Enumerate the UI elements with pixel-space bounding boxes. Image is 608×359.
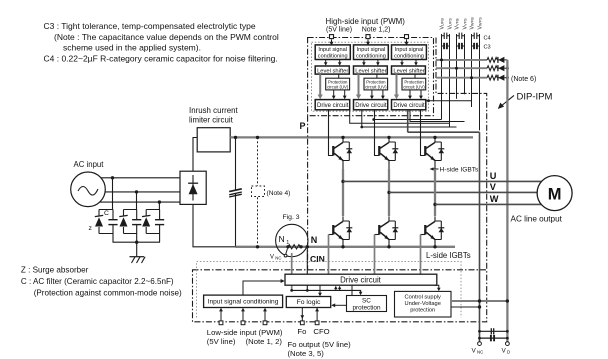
svg-text:Drive circuit: Drive circuit [355, 103, 387, 109]
arrows protection to drive 1 [332, 90, 347, 99]
label low-side input [207, 328, 283, 346]
svg-text:P: P [300, 121, 306, 131]
wire CFO pin [316, 308, 318, 321]
junction row 2 column [455, 67, 458, 70]
wire output V [389, 191, 537, 193]
capacitor C4 (ceramic) at 460 [457, 33, 465, 39]
junction N note4 [256, 245, 259, 248]
svg-text:N: N [311, 235, 318, 245]
junction P rail IGBT 3 [433, 136, 436, 139]
wire bootstrap supply row 1 [436, 59, 487, 61]
label Fo output [288, 340, 352, 358]
svg-text:Drive circuit: Drive circuit [393, 103, 425, 109]
AC source [71, 160, 106, 207]
input signal conditioning box 1 (high side) [315, 45, 350, 60]
input signal conditioning box 3 (high side) [392, 45, 427, 60]
wire conditioning to drive circuit [243, 281, 282, 295]
wire rectifier minus to N rail [193, 204, 236, 246]
arrows into drive circuit bottom [336, 289, 340, 291]
svg-text:circuit (UV): circuit (UV) [327, 84, 349, 89]
svg-text:circuit (UV): circuit (UV) [403, 84, 425, 89]
svg-text:Input signal conditioning: Input signal conditioning [208, 299, 279, 306]
svg-text:V: V [472, 348, 477, 355]
wire phase node W vertical [434, 169, 436, 216]
svg-text:Input signal: Input signal [357, 47, 386, 53]
svg-text:C4: C4 [484, 36, 491, 42]
arrows conditioning to level shifter 3 [400, 60, 418, 66]
svg-text:(Note 4): (Note 4) [267, 190, 291, 197]
label DIP-IPM [498, 92, 553, 110]
svg-text:scheme used in the applied sys: scheme used in the applied system). [63, 43, 201, 53]
H-side IGBT 2 with freewheel diode [375, 110, 399, 169]
bootstrap cap column wires 475 [472, 34, 480, 130]
wire VNC to UV protection [451, 306, 480, 308]
wire shunt sense (gray) down [291, 253, 293, 290]
input signal conditioning box (low side) [204, 295, 283, 307]
svg-text:C3: C3 [484, 45, 491, 51]
low-side inner dotted boundary [197, 262, 462, 318]
wire drive1 to VUFS [350, 110, 450, 123]
arrows protection to drive 3 [408, 90, 423, 99]
drive circuit box 1 (high side) [315, 100, 350, 110]
junction on line 3 [158, 200, 161, 203]
capacitor across VD-VNC (electrolytic, lower) [491, 335, 494, 341]
svg-text:Note 1,2): Note 1,2) [362, 27, 391, 34]
inrush current limiter box [189, 106, 238, 152]
svg-text:Inrush current: Inrush current [189, 106, 238, 115]
surge absorber Z + capacitor C branch 1 [95, 210, 118, 234]
wire drive2 to VVFB [362, 110, 457, 127]
wire phase node U vertical [342, 169, 344, 216]
DIP-IPM package boundary left edge [307, 116, 309, 270]
pin circle high-side input 1 [330, 35, 334, 39]
svg-text:conditioning: conditioning [318, 54, 348, 60]
svg-text:Fo: Fo [297, 327, 306, 336]
svg-text:Z : Surge absorber: Z : Surge absorber [21, 265, 89, 274]
svg-text:L-side IGBTs: L-side IGBTs [426, 251, 471, 260]
pin circle Fo [300, 321, 304, 325]
svg-text:(5V line): (5V line) [326, 27, 352, 34]
arrow into SC protection top [359, 292, 363, 295]
svg-text:AC input: AC input [74, 160, 105, 169]
high-side inner dotted boundary [312, 42, 429, 111]
wire drive3 to VVFS [410, 110, 465, 122]
wire VNC return (gray) [408, 110, 480, 342]
junction phase V [387, 191, 390, 194]
svg-text:Level shifter: Level shifter [393, 69, 424, 75]
junction CIN N rail [306, 245, 309, 248]
wire level shifter to protection 3 [414, 74, 416, 78]
label VD [502, 348, 511, 355]
DIP-IPM package boundary top right [436, 38, 487, 270]
junction VNC crossing [478, 299, 481, 302]
drive circuit box (low side) [285, 274, 437, 285]
svg-text:Under-Voltage: Under-Voltage [405, 301, 441, 307]
junction VD row 2 [506, 67, 509, 70]
wire AC line 3 [100, 201, 180, 203]
svg-text:(Protection against common-mod: (Protection against common-mode noise) [34, 288, 182, 297]
drive circuit box 3 (high side) [392, 100, 426, 110]
junction VD UV [506, 299, 509, 302]
svg-text:Input signal: Input signal [395, 47, 424, 53]
svg-text:Low-side input (PWM): Low-side input (PWM) [207, 328, 283, 337]
L-side IGBT 3 with freewheel diode [421, 216, 445, 246]
junction VD row 3 [506, 76, 509, 79]
pin circle high-side input 2 [366, 35, 370, 39]
svg-text:Level shifter: Level shifter [355, 69, 386, 75]
wire SC to drive [351, 285, 353, 295]
wire drive3 to VWFB [426, 100, 472, 102]
svg-text:D: D [507, 350, 510, 355]
wire drop to filter 3 [158, 202, 160, 209]
wire rectifier plus to inrush [193, 138, 197, 172]
svg-text:C: C [104, 210, 109, 217]
svg-text:V: V [270, 254, 274, 260]
arrows conditioning to level shifter 1 [324, 60, 342, 66]
svg-text:C : AC filter (Ceramic capacit: C : AC filter (Ceramic capacitor 2.2~6.5… [21, 277, 174, 286]
arrows conditioning to level shifter 2 [362, 60, 380, 66]
svg-text:(Note 3, 5): (Note 3, 5) [288, 349, 325, 358]
wire level shifter to protection 2 [376, 74, 378, 78]
junction N rail IGBT 1 [341, 245, 344, 248]
wire VD to UV protection (gray) [451, 300, 507, 302]
junction P C1 [234, 136, 237, 139]
svg-text:CFO: CFO [313, 327, 329, 336]
shunt resistor zigzag [288, 245, 300, 249]
wire VD supply line [506, 60, 508, 342]
svg-text:N: N [279, 234, 285, 244]
ground [130, 257, 146, 263]
wire VNC/VD bottom caps top [480, 330, 508, 332]
wire VNC/VD bottom caps bottom [480, 337, 508, 339]
svg-text:conditioning: conditioning [394, 54, 424, 60]
svg-text:Fig. 3: Fig. 3 [283, 214, 300, 221]
diode (bootstrap BSD) row 3 [497, 75, 507, 81]
H-side IGBT 3 with freewheel diode [421, 110, 445, 169]
wire filter bottom rail [113, 234, 161, 243]
label VNC [472, 348, 484, 355]
bootstrap cap column wires 445 [442, 34, 450, 127]
svg-text:(Note 1, 2): (Note 1, 2) [246, 337, 283, 346]
wire CIN down [306, 247, 308, 291]
level shifter box 3 [392, 66, 426, 75]
VNC sense terminal [270, 249, 288, 261]
svg-text:U: U [490, 171, 497, 181]
svg-text:circuit (UV): circuit (UV) [365, 84, 387, 89]
wire P rail [230, 136, 473, 138]
svg-text:V: V [502, 348, 507, 355]
svg-text:V: V [490, 182, 497, 192]
wire AC line 1 [101, 177, 180, 179]
dashed branch (Note 4) [252, 137, 291, 246]
wire pin 2 to input conditioning [367, 39, 369, 43]
svg-text:Level shifter: Level shifter [317, 69, 348, 75]
svg-text:DIP-IPM: DIP-IPM [517, 92, 553, 103]
junction N rail IGBT 2 [387, 245, 390, 248]
capacitor C1 (smoothing electrolytic) [229, 137, 242, 246]
note text C3/C4 [44, 21, 279, 63]
svg-text:H-side IGBTs: H-side IGBTs [440, 167, 480, 174]
protection circuit (UV) box 1 [326, 78, 350, 90]
wire pin 1 to input conditioning [331, 39, 333, 43]
svg-text:C3 : Tight tolerance, temp-com: C3 : Tight tolerance, temp-compensated e… [44, 21, 256, 31]
capacitor C4 (ceramic) at 445 [442, 33, 450, 39]
H-side IGBT 1 with freewheel diode [329, 110, 353, 169]
note text Z/C [21, 265, 182, 297]
junction P rail IGBT 2 [387, 136, 390, 139]
L-side IGBT 2 with freewheel diode [375, 216, 399, 246]
svg-text:Fo logic: Fo logic [297, 299, 321, 306]
arrows protection to drive 2 [370, 90, 385, 99]
diode (bootstrap BSD) row 2 [497, 65, 507, 71]
control supply under-voltage protection box [395, 291, 452, 317]
svg-text:Drive circuit: Drive circuit [317, 103, 349, 109]
pin circle high-side input 3 [405, 35, 409, 39]
svg-text:AC line output: AC line output [511, 215, 563, 224]
wire bootstrap supply row 3 [436, 77, 487, 79]
junction on line 2 [135, 190, 138, 193]
svg-text:Input signal: Input signal [318, 47, 347, 53]
wire low-side gate 2 to drive circuit [374, 235, 376, 275]
wire drop to filter 1 [112, 178, 114, 210]
wire drive to Fo logic [319, 285, 321, 294]
wire output W [435, 203, 541, 205]
wire low-side gate 1 to drive circuit [328, 235, 330, 275]
shunt resistor N1 circle (Fig. 3) [276, 214, 308, 257]
junction P rail IGBT 1 [341, 136, 344, 139]
svg-text:NC: NC [275, 255, 281, 260]
terminal VD [506, 342, 510, 346]
svg-text:(Note : The capacitance value: (Note : The capacitance value depends on… [54, 32, 279, 42]
wire pin in3 to conditioning [264, 310, 266, 321]
pin circle low-side in2 [241, 321, 245, 325]
wire pin in1 to conditioning [220, 310, 222, 321]
junction on line 1 [111, 176, 114, 179]
wire phase node V vertical [388, 169, 390, 216]
wire CIN horizontal to SC [292, 290, 361, 292]
L-side IGBT 1 with freewheel diode [329, 216, 353, 246]
svg-text:NC: NC [477, 350, 483, 355]
capacitor C3 (electrolytic) at 460 [457, 43, 465, 49]
DIP-IPM package boundary bottom block [193, 270, 487, 322]
wire drive1 to VUFB [374, 119, 442, 121]
motor M [537, 176, 572, 211]
wire Fo pin [301, 308, 303, 321]
wire to ground [136, 242, 138, 257]
surge absorber Z + capacitor C branch 2 [119, 210, 141, 234]
junction caps [478, 330, 481, 333]
wire pin in2 to conditioning [242, 310, 244, 321]
bootstrap cap column wires 460 [457, 34, 465, 99]
junction N left of shunt [286, 245, 289, 248]
svg-text:protection: protection [352, 305, 381, 312]
svg-text:protection: protection [410, 308, 435, 314]
svg-text:High-side input (PWM): High-side input (PWM) [326, 17, 406, 26]
wire pin 3 to input conditioning [406, 39, 408, 43]
resistor (bootstrap) row 1 [487, 58, 497, 63]
junction N rail IGBT 3 [433, 245, 436, 248]
svg-text:(5V line): (5V line) [207, 337, 236, 346]
svg-text:M: M [548, 185, 562, 203]
svg-text:Drive circuit: Drive circuit [340, 276, 382, 285]
svg-text:conditioning: conditioning [356, 54, 386, 60]
svg-text:z: z [89, 225, 93, 232]
SC protection box [347, 296, 387, 312]
svg-text:CIN: CIN [310, 254, 325, 264]
junction row 1 column [440, 58, 443, 61]
wire N rail [236, 246, 456, 248]
svg-text:SC: SC [362, 298, 371, 305]
resistor (bootstrap) row 3 [487, 75, 497, 80]
junction N right of shunt [299, 245, 302, 248]
thick gray arrow level shifter to drive 1 [318, 74, 323, 99]
wire drop to filter 2 [136, 192, 138, 210]
junction row 3 column [470, 76, 473, 79]
wire AC line 2 [105, 191, 180, 193]
capacitor C3 (electrolytic) at 445 [442, 43, 450, 49]
svg-text:W: W [490, 194, 499, 204]
junction VNC UV [478, 305, 481, 308]
Fo logic box [286, 297, 330, 308]
input signal conditioning box 2 (high side) [354, 45, 389, 60]
wire low-side gate 3 to drive circuit [420, 235, 422, 275]
pin circle CFO [315, 321, 319, 325]
high-side input block boundary (dash-dot) [308, 38, 434, 116]
wire bootstrap supply row 2 [436, 67, 487, 69]
thick gray arrow level shifter to drive 2 [356, 74, 361, 99]
protection circuit (UV) box 3 [402, 78, 426, 90]
drive circuit box 2 (high side) [354, 100, 388, 110]
svg-text:C4 : 0.22~2µF R-category ceram: C4 : 0.22~2µF R-category ceramic capacit… [44, 53, 278, 63]
resistor (bootstrap) row 2 [487, 66, 497, 71]
label H-side IGBTs [430, 167, 480, 174]
junction filter rail [135, 241, 138, 244]
diode (bootstrap BSD) row 1 [497, 57, 507, 63]
protection circuit (UV) box 2 [364, 78, 388, 90]
wire SC to Fo logic [334, 304, 347, 306]
wire level shifter to protection 1 [338, 74, 340, 78]
level shifter box 2 [354, 66, 388, 75]
header high-side input [326, 17, 406, 34]
level shifter box 1 [315, 66, 349, 75]
pin circle low-side in3 [263, 321, 267, 325]
capacitor across VD-VNC (ceramic, upper) [491, 328, 493, 334]
wire UV protection to drive [435, 285, 439, 289]
capacitor C4 (ceramic) at 475 [472, 33, 480, 39]
terminal VNC [478, 342, 482, 346]
rectifier diode bridge [180, 171, 206, 204]
junction phase W [433, 203, 436, 206]
thick gray arrow level shifter to drive 3 [394, 74, 399, 99]
svg-text:limiter circuit: limiter circuit [189, 115, 234, 124]
junction P note4 [256, 136, 259, 139]
junction phase U [341, 180, 344, 183]
surge absorber Z + capacitor C branch 3 [142, 210, 164, 234]
capacitor C3 (electrolytic) at 475 [472, 43, 480, 49]
svg-text:Fo output (5V line): Fo output (5V line) [288, 340, 352, 349]
svg-text:Control supply: Control supply [405, 295, 442, 301]
svg-text:(Note 6): (Note 6) [511, 76, 536, 83]
wire output U [343, 180, 542, 182]
pin circle low-side in1 [219, 321, 223, 325]
